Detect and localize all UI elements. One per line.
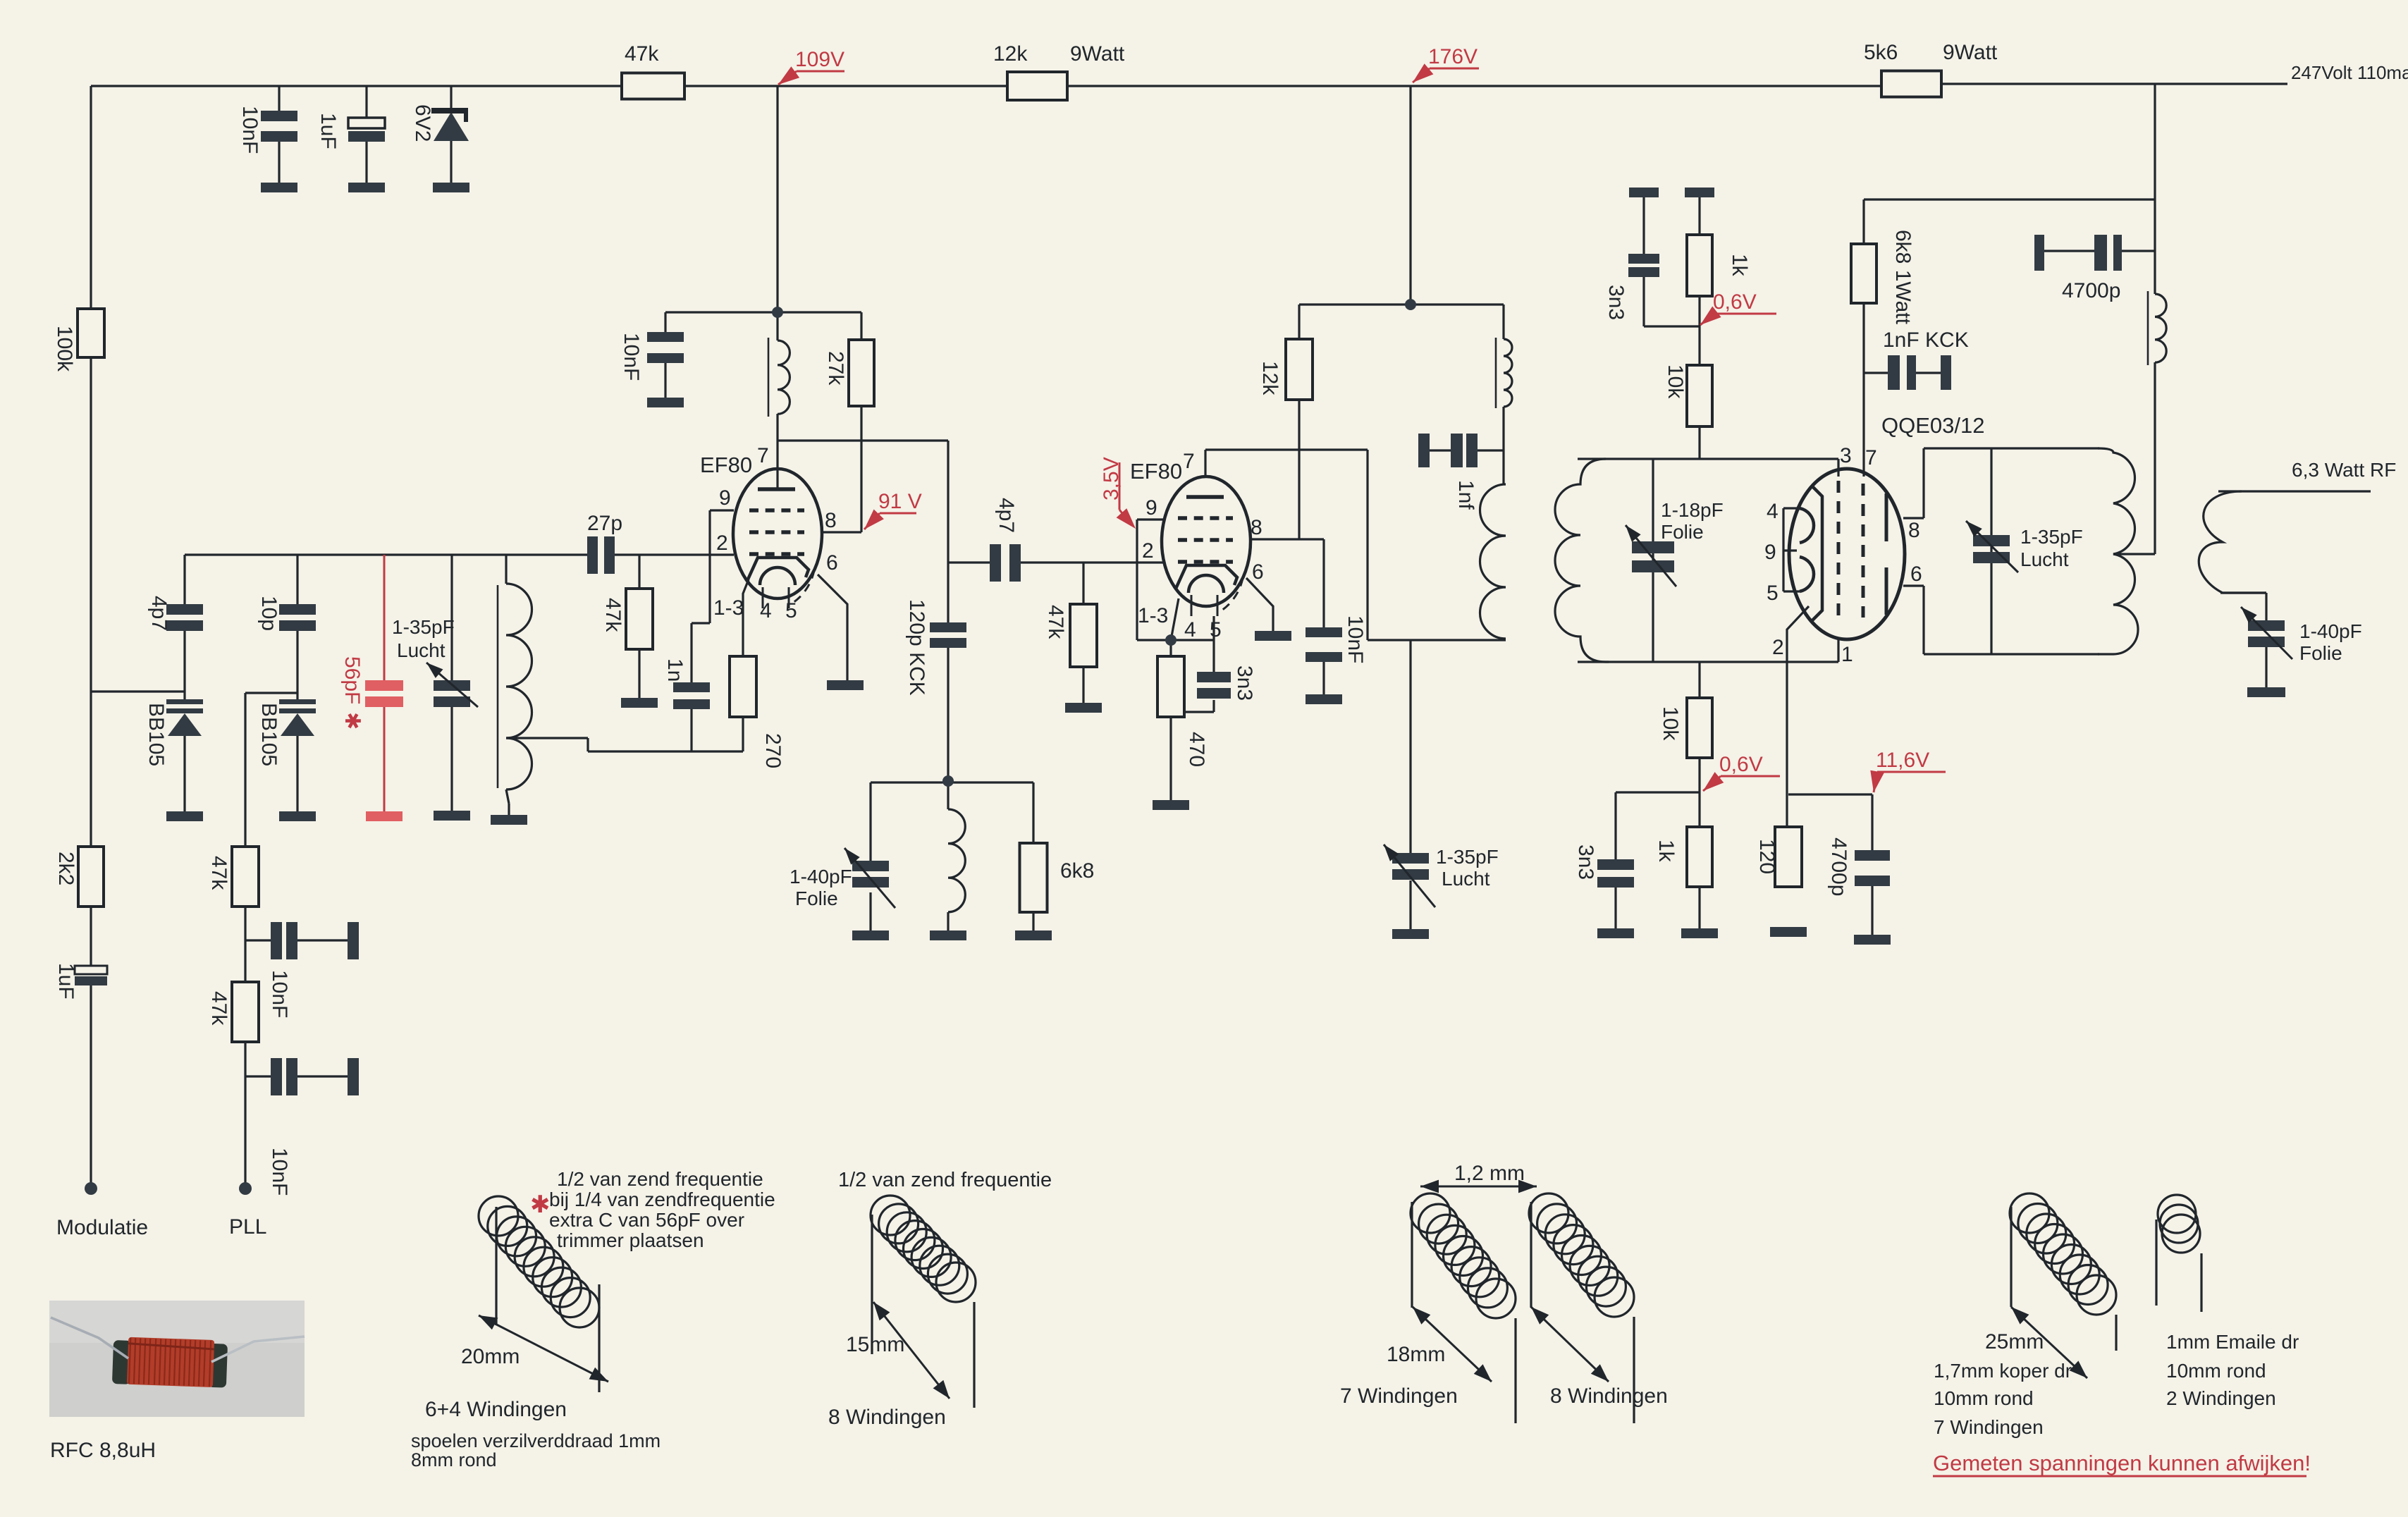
svg-text:18mm: 18mm [1387, 1343, 1445, 1366]
svg-text:10k: 10k [1659, 706, 1682, 741]
svg-text:0,6V: 0,6V [1713, 290, 1757, 314]
svg-text:6+4 Windingen: 6+4 Windingen [425, 1398, 567, 1421]
svg-text:1-35pF: 1-35pF [1436, 846, 1499, 868]
svg-text:Lucht: Lucht [397, 639, 446, 661]
svg-text:56pF: 56pF [340, 656, 364, 704]
svg-text:10mm rond: 10mm rond [1934, 1387, 2034, 1409]
svg-text:1k: 1k [1728, 254, 1751, 277]
svg-text:10nF: 10nF [268, 1148, 291, 1196]
svg-text:91 V: 91 V [878, 490, 922, 513]
svg-text:1mm Emaile dr: 1mm Emaile dr [2166, 1331, 2299, 1353]
svg-text:470: 470 [1185, 732, 1208, 767]
svg-text:spoelen verzilverddraad 1mm: spoelen verzilverddraad 1mm [411, 1430, 661, 1451]
svg-text:Folie: Folie [1661, 521, 1704, 543]
svg-text:6: 6 [1910, 563, 1922, 586]
svg-text:1k: 1k [1654, 840, 1678, 863]
svg-text:6: 6 [1252, 560, 1264, 584]
svg-text:47k: 47k [601, 598, 625, 632]
svg-text:9: 9 [1764, 541, 1776, 564]
svg-text:1uF: 1uF [54, 963, 78, 1000]
svg-text:3n3: 3n3 [1574, 845, 1597, 880]
svg-text:8mm rond: 8mm rond [411, 1449, 497, 1470]
svg-text:100k: 100k [53, 326, 76, 372]
svg-text:1-18pF: 1-18pF [1661, 499, 1724, 521]
svg-text:10mm rond: 10mm rond [2166, 1360, 2266, 1382]
svg-text:27k: 27k [824, 351, 847, 386]
svg-text:1,2 mm: 1,2 mm [1454, 1162, 1525, 1185]
svg-text:3n3: 3n3 [1604, 285, 1628, 320]
svg-text:2: 2 [1142, 539, 1154, 563]
svg-text:47k: 47k [207, 991, 231, 1026]
svg-text:1: 1 [1841, 643, 1853, 666]
svg-text:6k8 1Watt: 6k8 1Watt [1891, 230, 1915, 325]
svg-text:20mm: 20mm [461, 1345, 520, 1368]
svg-text:Lucht: Lucht [1442, 868, 1490, 890]
svg-text:47k: 47k [1044, 605, 1067, 639]
svg-text:27p: 27p [587, 512, 622, 535]
svg-text:4700p: 4700p [2062, 279, 2120, 302]
svg-text:PLL: PLL [229, 1215, 266, 1239]
svg-text:47k: 47k [207, 856, 231, 890]
svg-text:1nF KCK: 1nF KCK [1883, 328, 1969, 352]
svg-text:8: 8 [1251, 516, 1263, 539]
svg-text:247Volt 110ma: 247Volt 110ma [2291, 62, 2408, 83]
svg-text:176V: 176V [1428, 45, 1478, 68]
svg-text:6V2: 6V2 [411, 104, 434, 142]
svg-text:6k8: 6k8 [1060, 859, 1094, 883]
svg-text:15mm: 15mm [846, 1333, 904, 1356]
svg-text:5: 5 [1210, 618, 1222, 641]
svg-text:4: 4 [760, 599, 772, 622]
svg-text:9: 9 [1145, 496, 1157, 520]
svg-text:8: 8 [1908, 519, 1920, 542]
svg-text:7 Windingen: 7 Windingen [1340, 1384, 1458, 1408]
svg-text:10nF: 10nF [268, 970, 291, 1018]
svg-text:RFC 8,8uH: RFC 8,8uH [50, 1439, 156, 1462]
svg-text:1/2 van zend frequentie: 1/2 van zend frequentie [557, 1168, 763, 1190]
svg-text:10nF: 10nF [1344, 615, 1367, 663]
svg-text:9Watt: 9Watt [1943, 41, 1998, 64]
svg-text:7: 7 [1865, 446, 1877, 469]
svg-text:2: 2 [1772, 636, 1784, 659]
svg-text:9: 9 [719, 486, 731, 510]
svg-text:✱: ✱ [340, 712, 364, 730]
svg-text:10nF: 10nF [238, 106, 262, 154]
svg-text:7 Windingen: 7 Windingen [1934, 1416, 2044, 1438]
svg-text:9Watt: 9Watt [1070, 42, 1125, 66]
svg-text:120p KCK: 120p KCK [905, 599, 928, 696]
svg-text:5: 5 [785, 599, 797, 622]
svg-text:1-3: 1-3 [1138, 604, 1168, 627]
svg-text:Folie: Folie [795, 888, 838, 909]
svg-text:10nF: 10nF [620, 333, 643, 381]
svg-text:120: 120 [1755, 839, 1779, 874]
svg-text:2k2: 2k2 [54, 852, 78, 885]
svg-text:1nf: 1nf [1454, 480, 1478, 510]
svg-text:8 Windingen: 8 Windingen [828, 1406, 946, 1429]
svg-text:2 Windingen: 2 Windingen [2166, 1387, 2276, 1409]
svg-text:Modulatie: Modulatie [56, 1216, 148, 1239]
svg-text:10p: 10p [257, 596, 281, 631]
svg-text:1/2 van zend frequentie: 1/2 van zend frequentie [838, 1169, 1052, 1191]
svg-text:4700p: 4700p [1827, 837, 1850, 896]
svg-text:12k: 12k [993, 42, 1028, 66]
svg-text:6,3 Watt RF: 6,3 Watt RF [2292, 459, 2396, 481]
svg-text:trimmer plaatsen: trimmer plaatsen [557, 1229, 704, 1251]
svg-text:2: 2 [716, 532, 728, 555]
svg-text:4: 4 [1767, 500, 1779, 523]
svg-text:4p7: 4p7 [147, 596, 171, 631]
svg-text:1-35pF: 1-35pF [392, 616, 455, 638]
svg-text:0,6V: 0,6V [1719, 753, 1763, 776]
svg-text:5k6: 5k6 [1864, 41, 1898, 64]
svg-text:1uF: 1uF [317, 113, 340, 149]
svg-text:Gemeten spanningen kunnen afwi: Gemeten spanningen kunnen afwijken! [1933, 1451, 2311, 1475]
svg-text:8: 8 [825, 509, 837, 532]
svg-text:QQE03/12: QQE03/12 [1881, 413, 1984, 438]
svg-text:8 Windingen: 8 Windingen [1550, 1384, 1668, 1408]
svg-text:3: 3 [1840, 444, 1852, 467]
svg-text:1-40pF: 1-40pF [790, 866, 852, 888]
svg-text:bij 1/4 van zendfrequentie: bij 1/4 van zendfrequentie [549, 1189, 775, 1210]
svg-text:1-3: 1-3 [713, 596, 744, 620]
svg-text:11,6V: 11,6V [1876, 749, 1929, 772]
svg-text:EF80: EF80 [1130, 459, 1182, 484]
svg-text:109V: 109V [795, 48, 844, 71]
svg-text:1n: 1n [663, 658, 687, 682]
svg-text:Folie: Folie [2299, 642, 2342, 664]
svg-text:EF80: EF80 [700, 453, 752, 477]
svg-text:12k: 12k [1258, 361, 1282, 395]
svg-text:✱: ✱ [530, 1191, 551, 1218]
svg-text:1,7mm koper dr: 1,7mm koper dr [1934, 1360, 2072, 1382]
svg-text:25mm: 25mm [1985, 1330, 2044, 1353]
svg-text:3n3: 3n3 [1233, 665, 1256, 701]
svg-text:6: 6 [826, 551, 838, 575]
svg-text:Lucht: Lucht [2020, 548, 2069, 570]
svg-text:4: 4 [1184, 618, 1196, 641]
svg-text:7: 7 [757, 444, 769, 467]
svg-text:extra C van 56pF over: extra C van 56pF over [549, 1209, 744, 1231]
svg-text:270: 270 [761, 733, 785, 768]
svg-text:BB105: BB105 [257, 703, 281, 766]
svg-text:1-35pF: 1-35pF [2020, 526, 2083, 548]
svg-text:1-40pF: 1-40pF [2299, 620, 2362, 642]
svg-text:47k: 47k [625, 42, 659, 66]
svg-text:10k: 10k [1664, 364, 1687, 399]
svg-text:BB105: BB105 [145, 703, 168, 766]
svg-text:5: 5 [1767, 582, 1779, 605]
svg-text:7: 7 [1183, 450, 1195, 473]
svg-text:4p7: 4p7 [995, 498, 1018, 533]
